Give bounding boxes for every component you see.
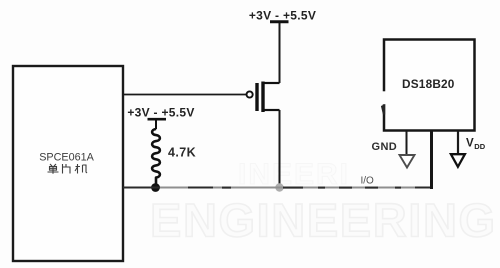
wire: source down to I/O net	[279, 110, 281, 188]
svg-text:+3V - +5.5V: +3V - +5.5V	[249, 9, 316, 23]
svg-text:INEERI: INEERI	[238, 158, 350, 191]
pin I/O of U2 (DQ)	[430, 131, 433, 189]
svg-text:V: V	[466, 138, 474, 150]
VDD arrow	[451, 154, 465, 167]
gate bubble	[247, 91, 253, 97]
机	[75, 164, 87, 174]
svg-text:SPCE061A: SPCE061A	[39, 152, 94, 164]
drain tap	[264, 82, 280, 84]
transistor Q1 (P-MOSFET)	[247, 82, 280, 113]
pin VDD of U2	[457, 131, 459, 153]
svg-text:DS18B20: DS18B20	[402, 77, 455, 91]
microcontroller U1 SPCE061A box	[13, 66, 123, 261]
单	[48, 164, 59, 174]
wire gate: U1 to Q1 gate	[123, 94, 246, 96]
svg-text:4.7K: 4.7K	[168, 146, 196, 160]
svg-text:ENGINEERING: ENGINEERING	[150, 194, 497, 247]
junction (gray blob) at Q1 source / I/O	[275, 183, 283, 191]
svg-text:GND: GND	[372, 141, 398, 153]
white notch on left border of U2	[381, 91, 386, 104]
svg-text:+3V - +5.5V: +3V - +5.5V	[127, 106, 194, 120]
power rail +3V - +5.5V (top)	[270, 20, 289, 23]
svg-text:I/O: I/O	[361, 176, 375, 187]
wire I/O net (horizontal)	[123, 187, 433, 189]
片	[63, 164, 71, 174]
GND arrow	[400, 155, 415, 168]
gate bar	[255, 83, 258, 111]
watermark text (faint)	[150, 158, 497, 247]
svg-text:DD: DD	[474, 142, 485, 151]
source tap	[264, 109, 280, 111]
wire: drain to +3V rail	[279, 22, 281, 83]
channel bar	[261, 82, 264, 113]
resistor R1 4.7K	[152, 119, 160, 184]
pin GND of U2	[406, 131, 408, 155]
sensor U2 DS18B20 box	[384, 40, 475, 131]
junction dot R1 / I/O	[151, 183, 160, 192]
label 单片机 (drawn strokes)	[48, 164, 88, 174]
